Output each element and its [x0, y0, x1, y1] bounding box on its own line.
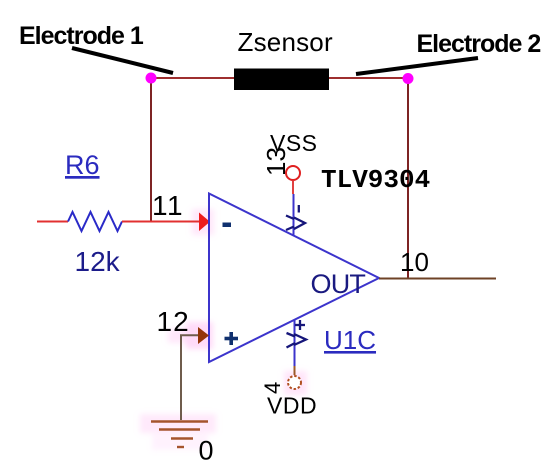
wire left vertical (electrode 1 node down to R6 output node): [150, 78, 152, 221]
svg-text:Electrode 2: Electrode 2: [417, 30, 541, 58]
power pin V- wire (red stub + blue pin): [292, 181, 295, 237]
node dot electrode 2 (magenta junction): [403, 73, 414, 84]
svg-text:OUT: OUT: [311, 269, 366, 299]
wire output horizontal: [379, 278, 496, 280]
wire pin 12 (corner from ground to non-inverting input): [181, 335, 198, 420]
sensor impedance Zsensor body: [234, 69, 329, 91]
svg-text:13: 13: [261, 147, 291, 176]
power pin V- rotated label glyphs: [286, 205, 305, 230]
svg-text:TLV9304: TLV9304: [321, 165, 430, 195]
svg-text:11: 11: [152, 190, 184, 221]
svg-text:12: 12: [157, 306, 190, 337]
svg-text:10: 10: [400, 247, 429, 277]
svg-text:12k: 12k: [75, 246, 121, 277]
wire top horizontal (electrode 1 node to electrode 2 node): [151, 77, 408, 79]
terminal VDD (dashed circle): [288, 376, 301, 389]
wire right vertical (electrode 2 node down to output net): [407, 78, 409, 279]
svg-text:0: 0: [199, 436, 214, 466]
svg-text:Electrode 1: Electrode 1: [19, 22, 144, 50]
leader line Electrode 2: [356, 58, 478, 74]
ground symbol: [151, 422, 208, 448]
non-inverting input plus symbol: [225, 332, 239, 345]
inverting input minus symbol: [223, 223, 232, 228]
pin 12 input arrow: [198, 327, 209, 344]
svg-text:Zsensor: Zsensor: [238, 27, 333, 57]
power pin V+ wire (blue pin + brown stub): [294, 320, 296, 376]
pin 11 input arrow: [199, 213, 210, 232]
resistor R6: [37, 212, 199, 231]
svg-text:U1C: U1C: [324, 325, 376, 355]
node dot electrode 1 (magenta junction): [146, 73, 157, 84]
svg-text:VDD: VDD: [267, 393, 317, 419]
pink jpeg halo tints (decorative): [140, 209, 307, 450]
power pin V+ rotated label glyphs: [287, 320, 307, 348]
leader line Electrode 1: [72, 48, 173, 73]
terminal VSS (open circle): [286, 166, 300, 180]
op-amp U1C triangle: [209, 194, 379, 363]
svg-text:R6: R6: [65, 150, 100, 180]
